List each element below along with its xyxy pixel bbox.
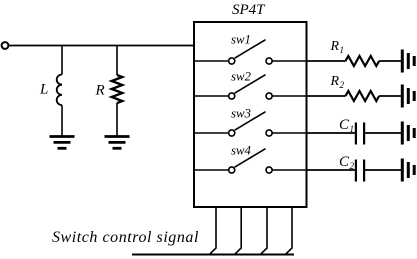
control bus — [132, 254, 294, 256]
switch sw3 — [194, 112, 307, 136]
wire R1 to ground — [379, 60, 401, 62]
ground under R — [105, 137, 130, 149]
SP4T box — [194, 22, 307, 207]
wire L branch bottom — [61, 105, 63, 136]
ground right row3 — [402, 122, 414, 145]
svg-text:sw2: sw2 — [231, 70, 252, 84]
control pin 3 — [261, 208, 268, 254]
ground right row4 — [402, 159, 414, 182]
resistor R2 — [346, 91, 380, 101]
capacitor C2 — [356, 160, 364, 182]
ground right row1 — [402, 50, 414, 73]
svg-text:sw1: sw1 — [231, 33, 251, 47]
svg-text:R: R — [330, 39, 340, 54]
wire box to R2 — [307, 95, 346, 97]
wire C2 to ground — [365, 169, 401, 171]
svg-text:sw4: sw4 — [231, 144, 252, 158]
wire C1 to ground — [365, 132, 401, 134]
ground under L — [50, 137, 75, 149]
capacitor C1 — [356, 123, 364, 145]
svg-text:2: 2 — [350, 161, 355, 171]
svg-text:C: C — [339, 154, 350, 170]
svg-text:R: R — [330, 74, 340, 89]
input terminal — [2, 42, 9, 49]
switch sw2 — [194, 75, 307, 99]
wire R2 to ground — [379, 95, 401, 97]
resistor R1 — [346, 56, 380, 66]
wire L branch top — [61, 46, 63, 75]
svg-text:L: L — [39, 82, 48, 98]
svg-text:Switch control signal: Switch control signal — [52, 229, 199, 246]
wire R branch bottom — [116, 103, 118, 137]
svg-text:C: C — [339, 117, 350, 133]
inductor L — [57, 75, 62, 106]
control pin 2 — [235, 208, 242, 254]
wire input to box — [9, 45, 194, 47]
ground right row2 — [402, 85, 414, 108]
wire R branch top — [116, 46, 118, 76]
switch sw1 — [194, 40, 307, 64]
svg-text:R: R — [95, 83, 105, 99]
svg-text:SP4T: SP4T — [232, 2, 266, 18]
wire box to C1 — [307, 132, 356, 134]
resistor R — [112, 75, 123, 103]
svg-text:sw3: sw3 — [231, 107, 251, 121]
svg-text:2: 2 — [340, 80, 345, 90]
svg-text:1: 1 — [350, 124, 355, 134]
wire box to C2 — [307, 169, 356, 171]
wire box to R1 — [307, 60, 346, 62]
switch sw4 — [194, 149, 307, 173]
svg-text:1: 1 — [340, 45, 345, 55]
control pin 1 — [210, 208, 217, 254]
control pin 4 — [286, 208, 293, 254]
